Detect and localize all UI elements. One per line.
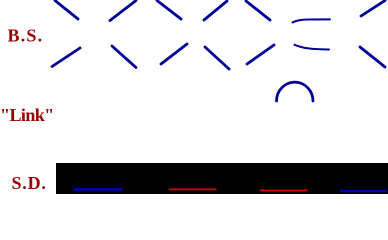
wire T2 (110, 1, 136, 21)
wire T4 (204, 1, 227, 20)
wire L5 (247, 45, 274, 64)
segment SB1 blue (74, 188, 122, 191)
segment SB2 blue (340, 190, 387, 193)
svg-text:B.S.: B.S. (8, 26, 44, 46)
wire U6 horizontal (293, 19, 331, 22)
wire T1 (55, 1, 78, 20)
wire D-bottom-right (360, 47, 385, 67)
wire D-top-right (361, 1, 385, 17)
black band bottom (56, 163, 388, 194)
svg-text:S.D.: S.D. (12, 173, 47, 193)
wire L4 (205, 47, 229, 69)
segment SR1 red (169, 189, 217, 191)
wire L2 (112, 46, 136, 68)
segment SR2 red (260, 190, 307, 192)
svg-text:"Link": "Link" (0, 105, 54, 125)
wire L1 (52, 48, 80, 67)
wire L6 horizontal (295, 45, 330, 50)
arc cap (277, 82, 314, 101)
wire T5 (246, 1, 270, 20)
wire L3 (161, 44, 187, 64)
wire T3 (157, 1, 181, 20)
